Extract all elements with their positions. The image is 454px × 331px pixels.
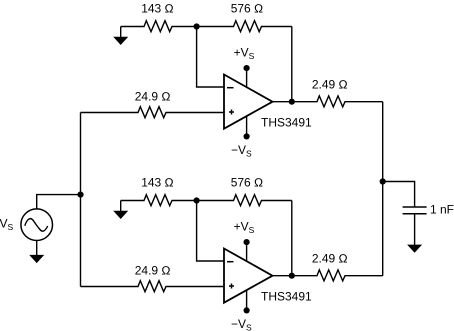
svg-text:24.9 Ω: 24.9 Ω [135, 264, 171, 278]
pin label plus input [229, 110, 234, 115]
node feedback junction (stage 1) [194, 23, 200, 29]
op-amp U1 THS3491 [224, 75, 273, 129]
svg-text:1 nF: 1 nF [430, 202, 454, 216]
svg-text:576 Ω: 576 Ω [231, 2, 264, 16]
pin label minus input [227, 87, 234, 89]
svg-text:576 Ω: 576 Ω [231, 176, 264, 190]
wire feedback right leg down to output node [291, 27, 293, 102]
wire capacitor branch [383, 182, 415, 208]
power pin +Vs (stage 1) [244, 65, 250, 87]
svg-text:THS3491: THS3491 [261, 289, 312, 303]
resistor 2.49 ohm (stage 2) [273, 270, 383, 281]
wire source to input bus [37, 195, 81, 209]
node feedback junction (stage 2) [194, 197, 200, 203]
ground G1a (below 143 ohm) [113, 27, 128, 46]
svg-text:143 Ω: 143 Ω [141, 2, 174, 16]
svg-text:24.9 Ω: 24.9 Ω [135, 90, 171, 104]
wire feedback tap to inverting input [197, 27, 224, 88]
capacitor 1 nF [403, 207, 427, 214]
resistor 576 ohm (stage 1) [197, 21, 292, 32]
wire right output bus [382, 102, 384, 276]
wire feedback right leg down to output node [291, 201, 293, 276]
svg-text:2.49 Ω: 2.49 Ω [312, 251, 348, 265]
resistor 2.49 ohm (stage 1) [273, 96, 383, 107]
svg-text:143 Ω: 143 Ω [141, 176, 174, 190]
resistor 576 ohm (stage 2) [197, 195, 292, 206]
op-amp U2 THS3491 [224, 249, 273, 303]
resistor 24.9 ohm (stage 2) [81, 281, 225, 292]
power pin -Vs (stage 1) [244, 116, 250, 139]
ground G2a (below 143 ohm) [113, 201, 128, 220]
node output junction (stage 2) [289, 273, 295, 279]
ground G4 (below source) [29, 255, 44, 263]
resistor 143 ohm (stage 1) [121, 21, 197, 32]
wire source to ground [36, 241, 38, 256]
wire capacitor to ground [414, 214, 416, 245]
ground G3 (below capacitor) [407, 245, 422, 253]
svg-text:2.49 Ω: 2.49 Ω [312, 77, 348, 91]
pin label plus input [229, 284, 234, 289]
resistor 24.9 ohm (stage 1) [81, 107, 225, 118]
svg-text:THS3491: THS3491 [261, 115, 312, 129]
node capacitor tap junction [380, 178, 386, 184]
power pin +Vs (stage 2) [244, 239, 250, 261]
resistor 143 ohm (stage 2) [121, 195, 197, 206]
wire feedback tap to inverting input [197, 201, 224, 262]
power pin -Vs (stage 2) [244, 290, 250, 313]
source Vs (sine generator) [21, 209, 53, 241]
node source tap junction [77, 192, 83, 198]
pin label minus input [227, 261, 234, 263]
node output junction (stage 1) [289, 99, 295, 105]
wire left input bus [80, 113, 82, 287]
